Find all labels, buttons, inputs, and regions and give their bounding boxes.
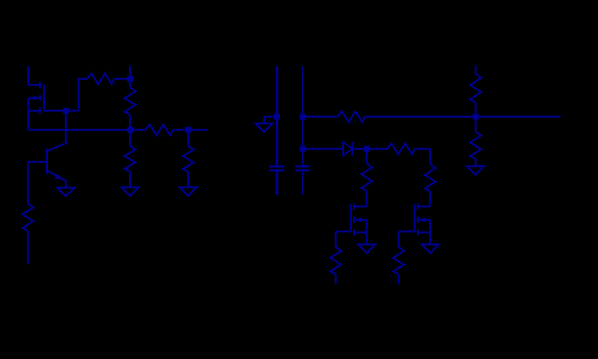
wire M2 source-bulk column: [366, 220, 368, 245]
resistor R12 gate bias: [330, 247, 341, 274]
transistor M3 gate: [414, 204, 416, 232]
transistor Q1 emitter: [47, 171, 66, 188]
wire rail 1 lower: [276, 171, 279, 195]
transistor Q1 emitter arrow: [55, 174, 62, 179]
wire M3 source stub: [418, 231, 430, 233]
resistor R6 base bias: [23, 203, 34, 230]
resistor R14 gate bias: [393, 247, 404, 274]
resistor R2: [125, 87, 136, 114]
ground at rail 1: [255, 123, 272, 131]
resistor R10: [387, 143, 414, 154]
wire node C to R3: [129, 130, 131, 146]
node C junction: [127, 127, 133, 133]
wire R13 to M3 drain: [429, 191, 431, 206]
node E junction: [473, 114, 479, 120]
wire M1 source-bulk column: [27, 98, 29, 130]
wire R3 to ground: [129, 172, 131, 188]
wire M3 gate left: [399, 231, 415, 233]
resistor R9 lower: [470, 132, 481, 159]
wire node B to R2: [129, 79, 131, 87]
wire R14 bottom lead: [398, 274, 400, 284]
wire node E down to R9: [475, 117, 477, 132]
ground under M3: [422, 244, 439, 253]
wire rail 2 upper: [302, 66, 304, 165]
wire M2 bulk stub: [354, 219, 367, 221]
wire M3 bulk stub: [418, 219, 430, 221]
wire rail 2 lower: [302, 171, 304, 195]
wire node E up to R8: [475, 102, 477, 116]
transistor M1 bulk arrow: [33, 96, 39, 100]
wire R6 bottom lead: [27, 231, 29, 265]
wire node D to R5: [187, 130, 189, 146]
node F junction: [364, 146, 370, 152]
wire M3 source-bulk column: [429, 220, 431, 245]
wire R5 to ground: [187, 172, 189, 188]
wire M2 drain stub: [354, 206, 367, 208]
ground under R5: [180, 187, 197, 196]
capacitor C2: [295, 166, 310, 170]
wire node F down: [366, 149, 368, 164]
wire Q1 base down: [27, 162, 29, 204]
wire row2 left: [303, 148, 343, 150]
transistor M2 gate: [350, 204, 352, 232]
wire R9 to ground: [475, 159, 477, 166]
wire Q1 base: [28, 161, 47, 163]
wire R10 to M3 branch: [415, 149, 431, 164]
wire row1 right: [365, 116, 561, 118]
ground under M2: [358, 244, 375, 253]
resistor R8 upper: [470, 74, 481, 103]
transistor M1 gate: [43, 85, 45, 111]
capacitor C1: [270, 166, 285, 170]
wire R12 bottom lead: [335, 274, 337, 284]
resistor R3: [125, 146, 136, 172]
wire rail 1 upper: [276, 66, 278, 165]
diode D1 cathode bar: [351, 142, 353, 156]
resistor R4 in bus: [146, 124, 173, 135]
node A junction: [63, 108, 69, 114]
wire M1 drain stub: [28, 84, 40, 86]
wire R8 supply stub: [475, 65, 477, 74]
wire R2 to node C: [129, 115, 131, 130]
resistor R13: [425, 164, 436, 191]
resistor R11: [361, 163, 372, 190]
wire M2 gate bias lead: [335, 232, 337, 247]
transistor M2 bulk arrow: [356, 218, 362, 222]
node rail1 junction: [274, 114, 280, 120]
node rail2 row1 junction: [300, 114, 306, 120]
diode D1 anode triangle: [343, 142, 352, 155]
wire node A down to Q1 collector: [47, 111, 66, 152]
ground under Q1 emitter: [57, 188, 74, 197]
wire R1 left riser: [79, 79, 88, 111]
ground under R9: [467, 166, 484, 175]
node rail2 row2 junction: [300, 146, 306, 152]
transistor M2 channel bars: [353, 203, 355, 235]
transistor Q1 base bar: [46, 149, 48, 174]
wire node B supply stub: [129, 66, 131, 79]
wire row1 left: [303, 116, 338, 118]
wire output bus: [28, 129, 208, 131]
wire M1 source stub: [28, 110, 40, 112]
wire diode to node F: [352, 148, 387, 150]
wire R11 to M2 drain: [366, 191, 368, 207]
transistor M3 bulk arrow: [419, 218, 425, 222]
wire M1 gate to node A: [44, 110, 79, 112]
node B junction: [127, 76, 133, 82]
wire M1 drain supply stub: [27, 66, 29, 85]
wire to rail1 ground arrow: [264, 117, 277, 124]
wire M3 gate bias lead: [398, 232, 400, 247]
transistor M3 channel bars: [417, 203, 419, 235]
wire M2 source stub: [354, 231, 367, 233]
transistor M1 channel bars: [39, 82, 41, 114]
node D junction: [185, 127, 191, 133]
resistor R5: [183, 146, 194, 172]
resistor R1: [87, 73, 114, 84]
wire M1 bulk stub: [28, 97, 40, 99]
wire M3 drain stub: [418, 206, 430, 208]
wire M2 gate left: [336, 231, 351, 233]
wire R1 to node B: [115, 78, 131, 80]
ground under R3: [121, 187, 138, 196]
resistor R7: [338, 111, 365, 122]
